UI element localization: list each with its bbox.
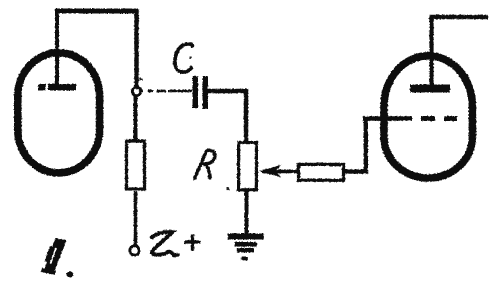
wire V1 anode lead vertical <box>55 9 59 86</box>
wire node A down to grid resistor <box>134 95 138 141</box>
label + (bias polarity) <box>185 235 201 251</box>
tube V2 anode plate <box>410 85 450 93</box>
tube V2 envelope <box>384 56 472 178</box>
wire wiper arrow shaft <box>262 170 298 174</box>
node A junction circle <box>132 87 140 95</box>
label Z (bias terminal name) <box>152 232 178 255</box>
wire node A to capacitor C (faint broken scan line) <box>141 90 192 92</box>
wire top-right horizontal <box>429 15 488 20</box>
tube V2 grid dashes <box>421 116 457 121</box>
tube V1 anode plate <box>38 84 76 91</box>
wire R2 to V2 grid (right, corner up) <box>345 119 412 174</box>
resistor R2 (horizontal) <box>299 164 344 180</box>
scan speckle right of node wire <box>140 78 143 80</box>
label C (handwritten italic) <box>175 44 193 72</box>
tube V1 envelope <box>18 53 100 173</box>
capacitor C plates <box>193 76 209 109</box>
scan speckle near R bottom-left <box>227 188 230 191</box>
resistor R (vertical, right) <box>239 143 257 190</box>
ground symbol <box>228 234 264 261</box>
label R (handwritten italic) <box>195 150 215 178</box>
wire vertical from top wire down to node A <box>134 9 139 88</box>
label И (figure label) <box>41 238 67 275</box>
bias terminal circle <box>130 246 139 255</box>
label И white slit between strokes <box>51 248 57 264</box>
wire resistor R to ground <box>245 191 249 236</box>
wire capacitor C to resistor R (with corner down) <box>208 91 246 141</box>
resistor R1 (grid leak, left) <box>127 141 145 189</box>
wire resistor R1 to bias terminal <box>134 191 138 246</box>
scan speckle inside C label <box>190 57 192 59</box>
wire top-left horizontal (V1 anode to coupling node) <box>55 9 138 14</box>
label period after И <box>67 272 74 278</box>
potentiometer wiper arrow into R <box>259 165 282 178</box>
wire V2 anode lead vertical <box>429 15 433 89</box>
